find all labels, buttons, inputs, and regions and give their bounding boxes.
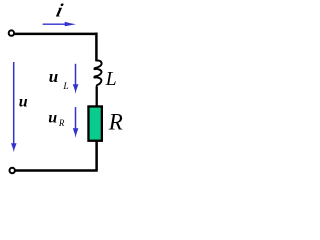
- voltage arrow u (blue, downward, left side): [13, 62, 15, 146]
- svg-text:u: u: [19, 93, 28, 110]
- svg-text:L: L: [62, 82, 68, 92]
- voltage arrow uL (blue, downward): [75, 64, 77, 87]
- terminal bottom-left: [10, 168, 15, 173]
- wire below resistor: [95, 142, 98, 171]
- svg-text:R: R: [108, 110, 123, 135]
- wire coil to resistor: [96, 87, 98, 106]
- resistor R rectangle: [88, 106, 101, 140]
- svg-text:R: R: [58, 118, 65, 128]
- wire top horizontal: [15, 33, 97, 36]
- voltage arrow uR (blue, downward): [75, 107, 77, 131]
- svg-text:u: u: [49, 67, 58, 86]
- svg-text:u: u: [48, 109, 57, 126]
- terminal top-left: [9, 30, 14, 35]
- inductor L coil: [94, 61, 101, 88]
- label i: [54, 1, 65, 22]
- current arrow i (blue, rightward): [43, 23, 70, 25]
- svg-text:L: L: [105, 69, 117, 90]
- wire bottom horizontal: [16, 169, 98, 172]
- wire right vertical upper: [95, 33, 98, 62]
